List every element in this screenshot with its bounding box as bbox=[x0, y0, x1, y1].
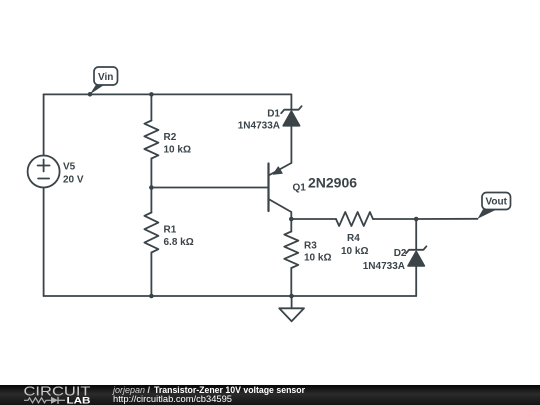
svg-text:Q1: Q1 bbox=[293, 183, 307, 194]
node junction collector/R3/R4 bbox=[289, 217, 294, 222]
wire R1 top lead bbox=[150, 188, 152, 213]
resistor R3 bbox=[284, 232, 298, 269]
footer title text bbox=[112, 385, 305, 404]
flag Vout bbox=[478, 193, 511, 219]
ground bbox=[279, 296, 304, 321]
svg-text:1N4733A: 1N4733A bbox=[363, 261, 405, 272]
wire R1 bottom lead bbox=[150, 253, 152, 297]
svg-text:2N2906: 2N2906 bbox=[308, 175, 357, 191]
wire V5 bottom lead bbox=[43, 188, 45, 297]
svg-text:10 kΩ: 10 kΩ bbox=[164, 145, 191, 156]
transistor Q1 (PNP 2N2906) bbox=[269, 163, 292, 219]
node Vin anchor dot bbox=[88, 92, 93, 97]
label D2 value bbox=[363, 248, 407, 272]
svg-text:Vin: Vin bbox=[98, 72, 113, 83]
footer bar bbox=[0, 385, 540, 405]
svg-text:Vout: Vout bbox=[485, 197, 507, 208]
wire D2 cathode lead bbox=[415, 219, 417, 250]
wire D1 cathode lead bbox=[290, 94, 292, 109]
svg-text:R3: R3 bbox=[304, 241, 317, 252]
label V5 value bbox=[63, 162, 84, 186]
resistor R2 bbox=[144, 121, 158, 159]
wire R4 right lead bbox=[373, 218, 416, 220]
svg-text:10 kΩ: 10 kΩ bbox=[341, 246, 368, 257]
label R4 value bbox=[341, 233, 368, 257]
wire D1 anode to emitter bbox=[290, 126, 292, 163]
wire R3 bottom lead bbox=[290, 268, 292, 296]
svg-text:http://circuitlab.com/cb34595: http://circuitlab.com/cb34595 bbox=[113, 394, 232, 404]
label R3 value bbox=[304, 241, 331, 264]
node junction mid R2/R1 bbox=[149, 185, 154, 190]
wire bottom ground bus bbox=[44, 295, 417, 297]
resistor R1 bbox=[144, 213, 158, 253]
svg-text:D1: D1 bbox=[267, 109, 280, 120]
svg-text:D2: D2 bbox=[394, 248, 407, 259]
wire R2 top lead bbox=[150, 94, 152, 120]
wire collector node to R3 bbox=[290, 219, 292, 232]
svg-text:6.8 kΩ: 6.8 kΩ bbox=[164, 237, 194, 248]
svg-text:R2: R2 bbox=[164, 132, 177, 143]
wire base (middle) bbox=[151, 187, 268, 189]
svg-text:1N4733A: 1N4733A bbox=[238, 121, 280, 132]
label D1 value bbox=[238, 109, 281, 132]
svg-text:V5: V5 bbox=[63, 162, 76, 173]
voltage source V5 bbox=[28, 156, 60, 188]
logo CIRCUIT LAB bbox=[24, 384, 91, 405]
flag Vin bbox=[90, 67, 118, 94]
label Q1 bbox=[293, 175, 358, 194]
wire D2 anode lead bbox=[415, 266, 417, 296]
svg-text:R1: R1 bbox=[164, 225, 177, 236]
node junction D2/R4 bbox=[414, 217, 419, 222]
wire R4 left lead bbox=[291, 218, 336, 220]
wire top bus (Vin net) bbox=[44, 93, 292, 95]
svg-text:R4: R4 bbox=[347, 233, 360, 244]
svg-text:LAB: LAB bbox=[67, 396, 91, 405]
wire R2 bottom lead bbox=[150, 159, 152, 188]
node junction bottom R1 bbox=[149, 294, 154, 299]
diode D1 zener bbox=[281, 106, 301, 126]
resistor R4 bbox=[336, 212, 373, 226]
label R1 value bbox=[164, 225, 194, 249]
diode D2 zener bbox=[406, 246, 426, 266]
svg-text:20 V: 20 V bbox=[63, 175, 84, 186]
node junction ground bbox=[289, 294, 294, 299]
wire to Vout bbox=[416, 218, 477, 220]
svg-text:10 kΩ: 10 kΩ bbox=[304, 253, 331, 264]
wire V5 top lead bbox=[43, 94, 45, 155]
label R2 value bbox=[164, 132, 191, 156]
node junction top R2 bbox=[149, 92, 154, 97]
